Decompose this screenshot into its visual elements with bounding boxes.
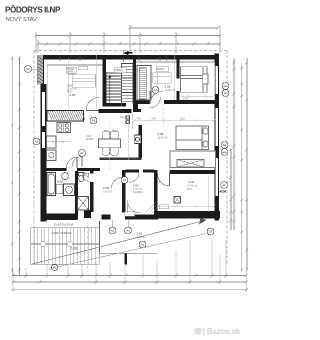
inner dimension horizontal right bbox=[133, 119, 216, 122]
axis markers right top pair bbox=[222, 83, 229, 90]
top dimension chain 1 bbox=[35, 34, 222, 37]
door arc bottom-right room bbox=[158, 174, 170, 186]
axis marker A2 bottom bbox=[109, 227, 116, 234]
svg-text:2.02: 2.02 bbox=[57, 180, 63, 184]
kitchen counter hatched bbox=[47, 110, 85, 121]
svg-text:A2A: A2A bbox=[222, 151, 227, 154]
left dimension chain 1 bbox=[11, 57, 14, 276]
door arc bathroom bbox=[67, 157, 78, 168]
door arc wc bbox=[82, 174, 90, 182]
dashed line bedroom 2.06 bbox=[163, 104, 165, 126]
top-right room dim line bbox=[181, 95, 213, 97]
view direction diagonal with arrow bbox=[31, 218, 207, 265]
svg-text:2.04: 2.04 bbox=[189, 180, 195, 184]
interior wall wc vertical bbox=[90, 171, 94, 212]
axis marker A1 stair bbox=[79, 150, 86, 157]
interior wall bathroom north bbox=[47, 168, 101, 171]
outer wall top-left insulated segment bbox=[38, 55, 44, 85]
staircase up arrow bbox=[108, 75, 111, 107]
outer wall top bbox=[38, 55, 219, 59]
interior wall dining south bbox=[100, 158, 142, 161]
outer wall left bbox=[41, 84, 47, 222]
svg-text:A2: A2 bbox=[111, 229, 115, 233]
svg-text:900: 900 bbox=[152, 118, 157, 121]
svg-text:A2A: A2A bbox=[223, 85, 228, 88]
left dimension chain 2 bbox=[18, 57, 21, 276]
right dimension chain 1 bbox=[246, 58, 249, 271]
bathroom sink bbox=[62, 172, 69, 179]
svg-text:12.08 m2: 12.08 m2 bbox=[165, 89, 176, 92]
stairwell bottom wall band bbox=[103, 103, 127, 107]
svg-text:☏| Bazos.sk: ☏| Bazos.sk bbox=[193, 327, 241, 336]
middle-right bed bbox=[176, 126, 209, 150]
svg-text:14.03: 14.03 bbox=[120, 116, 127, 119]
svg-text:PVC: PVC bbox=[187, 188, 192, 191]
dining table and chairs bbox=[99, 131, 121, 155]
interior wall horizontal right section bbox=[134, 100, 215, 112]
interior wall stairwell right bbox=[133, 58, 136, 110]
svg-text:KUCH.: KUCH. bbox=[86, 138, 94, 141]
axis marker A1 bottom bbox=[125, 227, 132, 234]
lintel label boxes bbox=[66, 66, 169, 216]
washing machine bbox=[64, 184, 75, 196]
svg-text:PVC: PVC bbox=[67, 91, 72, 94]
interior wall stairwell left bbox=[103, 58, 107, 107]
svg-text:A2A: A2A bbox=[220, 190, 227, 194]
interior wall face line left bbox=[48, 62, 215, 110]
inner dimension verticals bbox=[69, 52, 209, 212]
svg-text:2.07: 2.07 bbox=[183, 97, 189, 101]
hall furnace symbol bbox=[126, 116, 130, 124]
kitchen room label bbox=[86, 135, 94, 141]
svg-text:A1: A1 bbox=[126, 229, 130, 233]
svg-text:M1: M1 bbox=[53, 266, 57, 270]
axis marker A1 hall bbox=[121, 177, 128, 184]
svg-text:DREV.TERASA: DREV.TERASA bbox=[52, 231, 72, 235]
svg-text:PREKL: PREKL bbox=[115, 69, 124, 72]
axis marker right lower bbox=[221, 182, 228, 189]
watermark Bazos.sk bbox=[193, 327, 241, 336]
top-left room desk bbox=[72, 75, 96, 88]
interior wall hall east vertical bbox=[122, 170, 126, 213]
stair lintel label boxes bbox=[115, 68, 127, 73]
bottom dimension chain 1 bbox=[12, 274, 248, 277]
toilet wc bbox=[79, 173, 85, 182]
svg-text:ST: ST bbox=[209, 230, 213, 234]
window sill marks top wall bbox=[60, 55, 167, 61]
right dimension chain 4 bbox=[230, 149, 233, 230]
top-middle room desk bbox=[153, 73, 172, 84]
inner dimension horizontal bottom-right bbox=[157, 205, 216, 208]
axis markers right middle pair bbox=[221, 142, 228, 149]
axis marker A1 diag bbox=[139, 241, 146, 248]
door arc left hall pair bbox=[72, 157, 82, 167]
door arc middle room bbox=[129, 173, 139, 183]
section arrow A bbox=[123, 50, 133, 62]
axis marker A1 room205 bbox=[152, 87, 159, 94]
bottom-right room label box bbox=[160, 205, 169, 209]
bottom dimension chain 2 bbox=[12, 281, 248, 284]
svg-text:PÔDORYS II.NP: PÔDORYS II.NP bbox=[5, 5, 61, 14]
svg-text:11.97 m2: 11.97 m2 bbox=[158, 137, 169, 140]
door arc room209 bbox=[86, 98, 99, 111]
bottom total dimension line bbox=[12, 289, 248, 292]
axis marker ST bottom right bbox=[207, 228, 214, 235]
svg-text:2.06: 2.06 bbox=[158, 132, 164, 136]
staircase flight divider bbox=[121, 63, 123, 107]
door arc stairwell bbox=[150, 97, 161, 108]
axis marker A2 left bbox=[33, 138, 40, 145]
door arc hall bbox=[112, 178, 123, 189]
svg-text:3.97 m2: 3.97 m2 bbox=[103, 191, 113, 194]
svg-text:NOVÝ STAV: NOVÝ STAV bbox=[6, 16, 37, 23]
kitchen sink unit bbox=[47, 136, 57, 161]
svg-text:A1: A1 bbox=[141, 243, 145, 247]
top-right bed bbox=[181, 67, 209, 93]
svg-text:440: 440 bbox=[137, 118, 142, 121]
svg-text:A1: A1 bbox=[80, 151, 84, 155]
svg-text:6.03 m2: 6.03 m2 bbox=[137, 236, 147, 239]
bathroom cabinet bbox=[56, 184, 63, 194]
axis marker ST left top bbox=[25, 66, 32, 73]
interior wall top-right rooms divider bbox=[177, 58, 180, 103]
svg-text:2.01: 2.01 bbox=[137, 232, 143, 236]
entry corner hatch bbox=[146, 201, 157, 213]
svg-text:2.02: 2.02 bbox=[133, 184, 139, 188]
svg-text:1.00: 1.00 bbox=[71, 247, 77, 251]
svg-text:2.05: 2.05 bbox=[165, 85, 171, 89]
wc corner sink bbox=[85, 173, 88, 178]
entry door arc bbox=[128, 201, 141, 214]
top dimension extension lines bbox=[36, 25, 220, 53]
outer wall right bbox=[215, 54, 220, 221]
svg-text:2.08: 2.08 bbox=[103, 186, 109, 190]
room number labels bbox=[57, 85, 195, 236]
svg-text:A2: A2 bbox=[223, 143, 227, 147]
interior lintel line below top wall bbox=[47, 62, 215, 65]
top dimension chain 2 bbox=[37, 43, 222, 46]
svg-text:A2: A2 bbox=[35, 140, 39, 144]
bottom dimension extension lines bbox=[13, 240, 247, 292]
svg-text:25495: 25495 bbox=[68, 73, 76, 76]
top total dimension line bbox=[129, 27, 220, 30]
svg-text:DLAZBA: DLAZBA bbox=[133, 191, 143, 194]
section diagonal M1 to ST bbox=[58, 234, 206, 267]
svg-text:A2: A2 bbox=[222, 183, 226, 187]
inner dimension numbers room 2.06 bbox=[137, 118, 186, 121]
kitchen stove burners bbox=[57, 123, 71, 133]
outer wall bottom middle segments bbox=[102, 215, 111, 220]
svg-text:A1: A1 bbox=[92, 119, 96, 123]
dashed line below chimney bbox=[87, 221, 89, 272]
terrace deck with planks bbox=[31, 228, 100, 265]
outer wall bottom left section bbox=[41, 214, 78, 221]
top-middle wardrobe hatched bbox=[137, 66, 151, 101]
bathtub bbox=[47, 173, 56, 196]
interior wall bottom-right room west bbox=[154, 170, 158, 213]
door arc bedroom top bbox=[150, 91, 163, 104]
wc room shower bbox=[78, 197, 89, 211]
terrace mid line with markers bbox=[31, 241, 100, 246]
axis marker A1 mid bbox=[90, 117, 97, 124]
interior wall middle vertical bbox=[139, 125, 143, 158]
kitchen dim line bbox=[47, 140, 71, 143]
roof overhang dashed outline bbox=[34, 51, 227, 266]
heater symbol middle bbox=[134, 135, 141, 144]
bottom-right room stove square bbox=[174, 197, 181, 204]
right dimension chain 2 bbox=[241, 63, 244, 271]
wardrobe with X symbol bbox=[170, 151, 216, 168]
dining dashed axis line bbox=[109, 122, 111, 172]
svg-text:A1: A1 bbox=[123, 178, 127, 182]
chimney block bbox=[84, 210, 91, 218]
svg-text:ST: ST bbox=[26, 67, 30, 71]
right dimension chain 3 bbox=[233, 58, 236, 230]
outer wall bottom right section bbox=[125, 200, 220, 220]
svg-text:A2: A2 bbox=[224, 91, 228, 95]
interior wall bathroom east bbox=[75, 171, 78, 219]
axis marker M1 terrace bbox=[52, 265, 58, 271]
interior wall entry north bbox=[126, 170, 155, 173]
porch pillar bbox=[125, 254, 128, 265]
hall edge line bbox=[132, 113, 134, 129]
svg-text:DLAŽ.PLOCHA: DLAŽ.PLOCHA bbox=[54, 221, 74, 226]
porch side wall line bbox=[100, 221, 158, 253]
svg-text:A1: A1 bbox=[154, 88, 158, 92]
svg-text:PREKL: PREKL bbox=[157, 68, 166, 71]
svg-text:2190: 2190 bbox=[180, 118, 186, 121]
interior wall below stairs bbox=[99, 109, 142, 113]
room area labels bbox=[67, 73, 198, 239]
interior wall bottom-right room north bbox=[170, 170, 215, 174]
staircase treads bbox=[106, 62, 133, 103]
